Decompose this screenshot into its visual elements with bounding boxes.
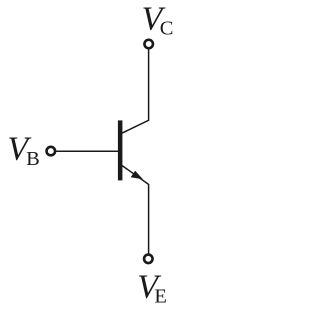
svg-text:C: C [160, 18, 174, 40]
node VB label [7, 130, 39, 170]
transistor Q1 base bar [118, 120, 123, 180]
node VC label [142, 1, 174, 40]
node VE label [137, 268, 167, 307]
wire collector (vertical + diagonal to base bar) [122, 49, 149, 133]
terminal VE [144, 255, 153, 264]
transistor Q1 emitter arrow [131, 171, 143, 180]
terminal VC [144, 40, 153, 49]
wire base [56, 150, 118, 152]
terminal VB [47, 147, 56, 156]
wire emitter diagonal [122, 166, 149, 254]
svg-text:E: E [154, 286, 167, 308]
svg-text:B: B [26, 148, 40, 170]
